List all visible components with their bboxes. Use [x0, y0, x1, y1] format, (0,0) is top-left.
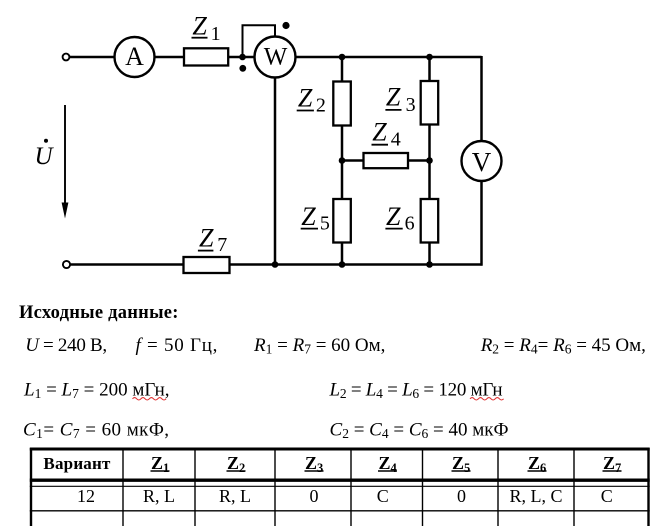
svg-text:Z: Z: [192, 12, 207, 41]
svg-text:0: 0: [310, 486, 319, 506]
svg-text:U = 240 В,: U = 240 В,: [25, 335, 107, 356]
svg-text:L1 = L7 = 200 мГн,: L1 = L7 = 200 мГн,: [23, 380, 170, 402]
underline of Z4: [372, 144, 389, 146]
spellcheck squiggle 1: [133, 398, 167, 400]
junction dot bottom branch1: [339, 261, 346, 268]
svg-text:C2 = C4 = C6 = 40 мкФ: C2 = C4 = C6 = 40 мкФ: [330, 420, 509, 442]
source arrow U line: [64, 105, 66, 212]
svg-text:A: A: [125, 42, 144, 71]
wire voltmeter bottom to bottom rail: [480, 181, 483, 266]
junction dot at Z1-W node: [239, 54, 246, 61]
wire branch 1: [341, 57, 344, 265]
svg-text:V: V: [472, 147, 492, 177]
svg-text:1: 1: [163, 461, 169, 475]
body line 1: [25, 335, 646, 357]
svg-text:Z: Z: [603, 453, 615, 473]
underline of Z5: [301, 228, 318, 230]
svg-text:Z: Z: [372, 117, 387, 146]
table data row: [77, 486, 613, 506]
svg-text:2: 2: [316, 94, 326, 116]
resistor Z2: [333, 82, 351, 126]
body line 3: [23, 420, 508, 442]
svg-text:6: 6: [405, 213, 415, 235]
svg-text:Исходные данные:: Исходные данные:: [19, 303, 179, 323]
svg-text:Z: Z: [305, 453, 317, 473]
wire right corner down to voltmeter: [480, 56, 483, 141]
svg-text:f = 50 Гц,: f = 50 Гц,: [136, 335, 219, 356]
spellcheck squiggle 2: [470, 398, 504, 400]
svg-text:C: C: [377, 486, 389, 506]
polarity dot top right of loop: [282, 22, 289, 29]
svg-text:R2 = R4= R6 = 45 Ом,: R2 = R4= R6 = 45 Ом,: [480, 335, 646, 357]
underline of Z2: [297, 110, 314, 112]
wire wattmeter drop: [274, 78, 277, 265]
svg-text:Z: Z: [199, 224, 214, 253]
svg-text:C: C: [601, 486, 613, 506]
svg-text:W: W: [264, 44, 288, 71]
junction dot bottom branch2: [426, 261, 433, 268]
junction dot mid branch2: [426, 157, 433, 164]
voltmeter V circle: [462, 141, 502, 181]
junction dot mid branch1: [339, 157, 346, 164]
svg-text:Z: Z: [227, 453, 239, 473]
polarity dot below wire: [239, 65, 246, 72]
svg-text:Z: Z: [378, 453, 390, 473]
wire top main: [69, 56, 254, 59]
terminal top left: [63, 54, 70, 61]
svg-text:R, L, C: R, L, C: [509, 486, 562, 506]
wire branch 2: [428, 57, 431, 265]
svg-text:3: 3: [317, 461, 323, 475]
wattmeter W circle: [255, 37, 296, 78]
svg-text:3: 3: [406, 94, 416, 116]
wire top right: [296, 56, 482, 59]
svg-text:Z: Z: [298, 84, 313, 113]
svg-text:R1 = R7 = 60 Ом,: R1 = R7 = 60 Ом,: [253, 335, 385, 357]
junction dot bottom W: [272, 261, 279, 268]
body line 2: [23, 380, 502, 402]
wire bottom rail: [70, 263, 483, 266]
ammeter A circle: [115, 37, 155, 77]
underline of Z6: [385, 228, 402, 230]
svg-text:Z: Z: [301, 202, 316, 231]
svg-text:C1= C7 = 60 мкФ,: C1= C7 = 60 мкФ,: [23, 420, 170, 442]
terminal bottom left: [63, 261, 70, 268]
resistor Z6: [421, 199, 439, 243]
underline of Z7: [198, 250, 214, 252]
wire wattmeter voltage loop: [243, 25, 276, 57]
svg-text:Z: Z: [528, 453, 540, 473]
svg-text:R, L: R, L: [219, 486, 251, 506]
junction dot top branch2: [426, 54, 433, 61]
table header row: [43, 453, 615, 473]
table grid verticals: [31, 448, 649, 526]
svg-text:U: U: [35, 143, 55, 170]
svg-text:2: 2: [239, 461, 245, 475]
resistor Z7: [184, 257, 230, 273]
table grid horizontals: [30, 449, 650, 511]
resistor Z4: [364, 153, 409, 168]
svg-text:7: 7: [217, 234, 227, 256]
svg-text:4: 4: [391, 128, 401, 150]
svg-text:5: 5: [464, 461, 470, 475]
svg-text:6: 6: [540, 461, 546, 475]
svg-text:1: 1: [211, 23, 221, 45]
svg-text:0: 0: [457, 486, 466, 506]
resistor Z3: [421, 81, 439, 125]
underline of Z1: [192, 37, 208, 39]
resistor Z5: [333, 199, 351, 243]
svg-text:Z: Z: [386, 202, 401, 231]
svg-text:Z: Z: [452, 453, 464, 473]
source label U dot: [35, 139, 55, 170]
svg-text:Z: Z: [386, 83, 401, 112]
resistor Z1: [184, 48, 228, 65]
svg-text:4: 4: [391, 461, 398, 475]
svg-text:Z: Z: [151, 453, 163, 473]
svg-text:Вариант: Вариант: [43, 454, 111, 473]
wire middle bridge: [342, 159, 430, 162]
svg-text:7: 7: [615, 461, 621, 475]
junction dot top branch1: [339, 54, 346, 61]
svg-text:5: 5: [320, 213, 330, 235]
underline of Z3: [385, 109, 401, 111]
source arrow head: [62, 203, 69, 219]
svg-text:R, L: R, L: [143, 486, 175, 506]
svg-text:12: 12: [77, 486, 95, 506]
